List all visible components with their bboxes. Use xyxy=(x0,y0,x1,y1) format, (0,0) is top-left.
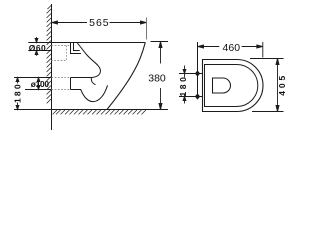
svg-text:380: 380 xyxy=(148,72,166,84)
floor line xyxy=(14,109,168,111)
svg-text:ø100: ø100 xyxy=(31,79,50,89)
wall hatching xyxy=(47,6,51,104)
dim 380 extension line top xyxy=(151,41,169,43)
inner rim outline xyxy=(205,65,258,107)
wall line top view xyxy=(197,42,199,97)
dim 565 extension line xyxy=(146,18,148,40)
dim O100 arrow line xyxy=(37,78,40,90)
dim O100 extension lines xyxy=(14,78,52,90)
svg-text:405: 405 xyxy=(277,73,287,96)
dim 380 line with arrows xyxy=(159,42,162,110)
hidden inlet box (dashed) xyxy=(52,46,71,61)
side view: wall line xyxy=(51,4,53,130)
dim 460 right extension xyxy=(262,42,264,58)
flush connector detail xyxy=(71,43,82,54)
floor hatching xyxy=(53,110,146,114)
svg-text:565: 565 xyxy=(89,17,110,29)
dim 405 extension lines xyxy=(250,59,284,112)
dim 565 line with arrows xyxy=(52,21,147,24)
svg-text:460: 460 xyxy=(223,42,241,54)
outlet pipe visible part xyxy=(71,78,92,90)
dim O60 arrows xyxy=(35,37,38,56)
dim 460 line xyxy=(198,45,263,48)
dim 405 line with arrows xyxy=(276,59,279,112)
toilet pan side profile: front curve down to floor xyxy=(107,43,145,110)
toilet pan side profile: top surface xyxy=(52,42,146,44)
dim 180 top view line xyxy=(183,66,186,104)
dim O60 extension lines xyxy=(28,43,51,51)
inner D opening xyxy=(213,78,231,93)
svg-text:Ø60: Ø60 xyxy=(29,43,46,53)
dim 180 side view line xyxy=(16,78,19,110)
svg-text:180: 180 xyxy=(178,75,188,97)
outer body outline xyxy=(203,60,264,112)
hole marker top xyxy=(179,71,203,76)
outlet pipe hidden lines (dashed) xyxy=(52,78,71,90)
inner bowl S-curve xyxy=(77,43,100,85)
svg-text:180: 180 xyxy=(12,82,22,103)
hole marker bottom xyxy=(179,94,203,99)
trap U curve xyxy=(71,85,108,101)
